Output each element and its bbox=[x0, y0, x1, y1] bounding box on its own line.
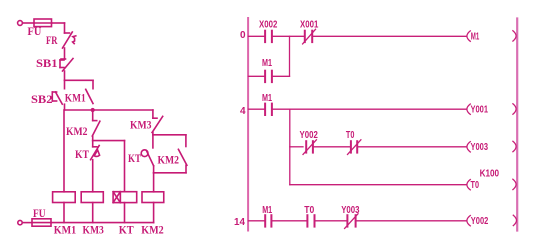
svg-text:T0: T0 bbox=[346, 130, 355, 141]
wire branch to coil KT bbox=[93, 141, 125, 192]
coil KM1 bbox=[53, 192, 76, 203]
contact KT (NC delayed) bbox=[91, 141, 100, 160]
junction dot bbox=[91, 108, 95, 112]
branch vertical rung0 bbox=[289, 36, 291, 76]
svg-text:T0: T0 bbox=[304, 205, 314, 216]
contact M1 rung14 bbox=[265, 215, 271, 226]
parallel block bottom rail bbox=[154, 165, 186, 173]
contact Y002 (NC) bbox=[303, 140, 316, 155]
coil M1 bbox=[467, 31, 516, 42]
svg-text:T0: T0 bbox=[471, 180, 480, 191]
contact KT (NO delayed) bbox=[141, 135, 153, 166]
svg-text:M1: M1 bbox=[262, 205, 272, 216]
svg-text:M1: M1 bbox=[262, 58, 272, 69]
rung14 wire segments bbox=[249, 220, 467, 222]
branch vertical rung4 bbox=[289, 109, 291, 185]
wire drop to coil KM2 bbox=[153, 173, 155, 192]
wire fuse to corner and down to FR bbox=[52, 23, 70, 33]
right rail bbox=[516, 19, 518, 231]
svg-text:KM1: KM1 bbox=[65, 91, 86, 105]
node rail y110 bbox=[65, 109, 153, 111]
coil Y002 bbox=[467, 215, 517, 226]
svg-text:FU: FU bbox=[33, 206, 46, 220]
svg-text:M1: M1 bbox=[262, 93, 272, 104]
svg-text:KT: KT bbox=[119, 223, 134, 237]
svg-text:X002: X002 bbox=[259, 19, 278, 30]
thermal relay contact FR bbox=[63, 32, 76, 48]
svg-text:4: 4 bbox=[240, 106, 246, 117]
wire main drop to coil KM1 bbox=[63, 110, 65, 192]
coil KM3 bbox=[81, 192, 103, 203]
svg-text:SB2: SB2 bbox=[31, 92, 53, 106]
contact KM2 (NC) bbox=[92, 110, 100, 136]
wire SB2 top stub bbox=[64, 80, 66, 88]
push button SB2 (NO) bbox=[52, 92, 62, 104]
contact M1 rung4 bbox=[265, 104, 272, 115]
wire SB2 bottom bbox=[64, 104, 66, 110]
svg-text:SB1: SB1 bbox=[36, 56, 58, 70]
wire FR to SB1 bbox=[61, 48, 66, 59]
rung0 wire segments bbox=[249, 35, 467, 37]
contact KM1 (NO, parallel with SB2) bbox=[86, 89, 93, 103]
coil Y003 bbox=[467, 141, 516, 152]
wire fuse to terminal bottom bbox=[23, 222, 33, 224]
svg-text:M1: M1 bbox=[471, 31, 480, 42]
svg-text:KM2: KM2 bbox=[141, 223, 164, 237]
contact M1 (NO parallel) bbox=[265, 71, 272, 82]
terminal top-left bbox=[18, 21, 23, 26]
svg-text:Y002: Y002 bbox=[471, 216, 489, 227]
push button SB1 (NC) bbox=[60, 59, 73, 72]
rung4 wire segments bbox=[249, 108, 467, 110]
coil T0 bbox=[467, 179, 516, 190]
sub-rung Y003 wires bbox=[290, 146, 467, 148]
wire KT contact to coil KM3 bbox=[92, 160, 94, 192]
svg-text:FR: FR bbox=[46, 33, 58, 47]
bottom rail bbox=[51, 222, 154, 224]
coil KM2 bbox=[142, 192, 164, 203]
svg-text:KM2: KM2 bbox=[158, 153, 180, 167]
svg-text:KM2: KM2 bbox=[66, 124, 88, 138]
wire KM2 bottom node bbox=[92, 136, 94, 141]
coil bottom stubs bbox=[64, 203, 154, 223]
contact KM3 (NC) bbox=[152, 110, 163, 133]
svg-text:Y002: Y002 bbox=[300, 130, 319, 141]
svg-text:14: 14 bbox=[234, 217, 245, 228]
contact KM2 (NO right) bbox=[178, 149, 187, 165]
svg-text:KT: KT bbox=[75, 147, 89, 161]
svg-text:K100: K100 bbox=[480, 169, 500, 180]
wire branch to KM1 contact bbox=[65, 80, 94, 88]
fuse FU top bbox=[34, 19, 52, 27]
svg-text:Y003: Y003 bbox=[471, 142, 489, 153]
contact Y003 (NC rung14) bbox=[345, 214, 358, 229]
svg-text:KM3: KM3 bbox=[83, 223, 104, 237]
wire terminal to fuse FU top bbox=[23, 22, 34, 24]
contact T0 (NC) bbox=[348, 140, 361, 155]
contact T0 rung14 (NO) bbox=[307, 215, 314, 226]
svg-text:FU: FU bbox=[28, 24, 42, 38]
wire SB1 down to branch node bbox=[64, 71, 66, 80]
parallel sub-rung M1 wires bbox=[249, 75, 290, 77]
fuse FU bottom bbox=[32, 219, 51, 226]
terminal bottom-left bbox=[18, 220, 22, 224]
parallel block top rail bbox=[153, 133, 186, 147]
svg-text:KT: KT bbox=[128, 151, 141, 165]
coil Y001 bbox=[467, 104, 516, 115]
sub-rung T0 wire bbox=[290, 184, 467, 186]
svg-text:0: 0 bbox=[240, 30, 246, 41]
coil KT (timer with X box) bbox=[113, 192, 137, 203]
contact X001 (NC) bbox=[303, 29, 316, 44]
svg-text:Y001: Y001 bbox=[471, 104, 489, 115]
svg-text:KM3: KM3 bbox=[130, 118, 152, 132]
left rail bbox=[247, 18, 249, 231]
svg-text:X001: X001 bbox=[300, 19, 319, 30]
svg-text:KM1: KM1 bbox=[54, 223, 76, 237]
svg-text:Y003: Y003 bbox=[341, 205, 360, 216]
contact X002 (NO) bbox=[265, 31, 272, 42]
